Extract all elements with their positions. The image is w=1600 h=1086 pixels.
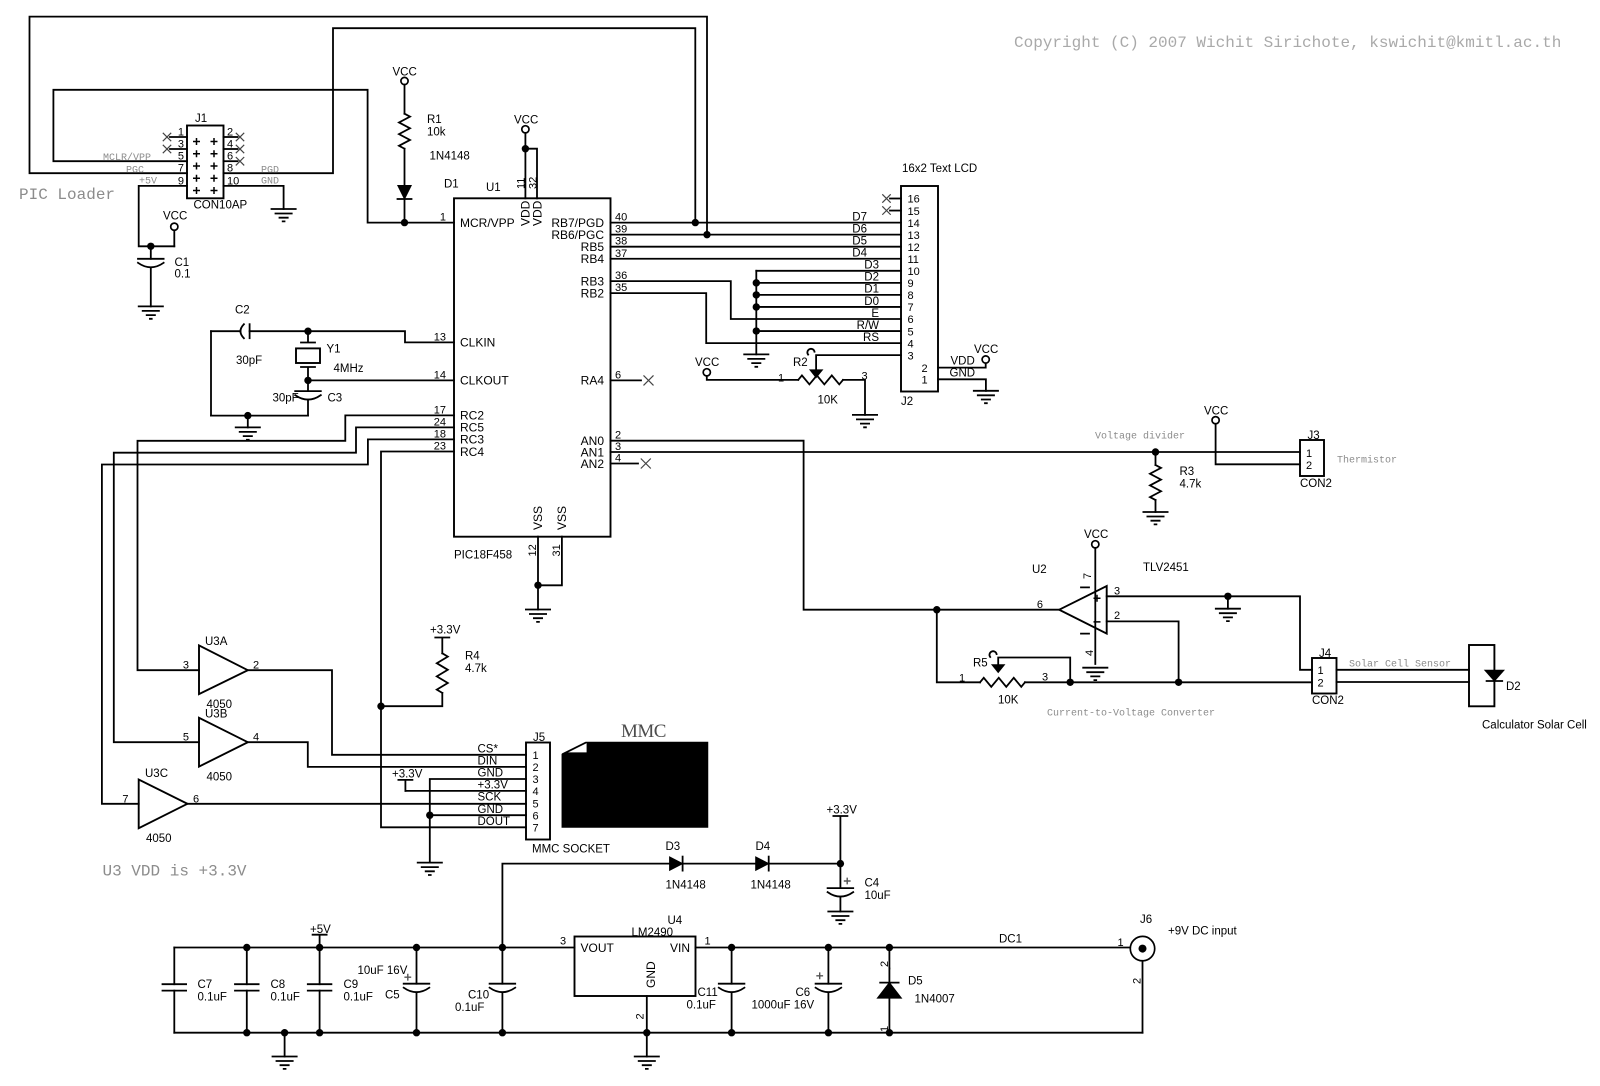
svg-text:J3: J3 xyxy=(1308,430,1320,442)
svg-text:1: 1 xyxy=(178,127,184,139)
svg-text:VSS: VSS xyxy=(555,506,569,530)
svg-text:7: 7 xyxy=(122,793,128,805)
svg-text:D7: D7 xyxy=(852,211,867,223)
svg-text:GND: GND xyxy=(478,768,504,780)
resistor R3 4.7k xyxy=(1155,452,1157,465)
node XTAL1 xyxy=(304,328,311,335)
ground C1 xyxy=(138,306,164,318)
svg-text:16x2 Text LCD: 16x2 Text LCD xyxy=(902,163,977,175)
svg-text:6: 6 xyxy=(1037,599,1043,611)
wire C2 left vertical xyxy=(210,331,212,415)
node MCLR xyxy=(401,219,408,226)
svg-text:D0: D0 xyxy=(864,296,879,308)
svg-text:4: 4 xyxy=(533,786,539,798)
power +5V xyxy=(313,935,327,948)
wire J4 pin1 to solar cell xyxy=(1337,669,1470,671)
svg-text:+3.3V: +3.3V xyxy=(827,805,858,817)
svg-text:3: 3 xyxy=(1042,672,1048,684)
svg-text:U3 VDD is +3.3V: U3 VDD is +3.3V xyxy=(103,863,247,881)
svg-text:10k: 10k xyxy=(427,127,446,139)
svg-text:2: 2 xyxy=(1114,610,1120,622)
svg-text:J4: J4 xyxy=(1319,648,1332,660)
node DOUT pull-up xyxy=(377,703,384,710)
mmc card icon xyxy=(562,743,707,828)
ground U1 VSS xyxy=(525,610,551,622)
connector J4 CON2 xyxy=(1312,648,1344,707)
wire CLKOUT xyxy=(308,379,454,381)
svg-text:R1: R1 xyxy=(427,114,442,126)
svg-text:5: 5 xyxy=(183,732,189,744)
wire LCD D2 xyxy=(756,282,901,284)
svg-text:DC1: DC1 xyxy=(999,934,1022,946)
svg-text:1: 1 xyxy=(778,372,784,384)
wire +5V rail to D3 xyxy=(502,864,669,948)
wire VSS pins to ground xyxy=(538,537,562,586)
svg-text:4: 4 xyxy=(908,338,914,350)
svg-text:2: 2 xyxy=(533,762,539,774)
svg-text:D3: D3 xyxy=(666,841,681,853)
svg-text:Y1: Y1 xyxy=(327,344,341,356)
svg-text:U1: U1 xyxy=(486,182,501,194)
wire crystal ground rail xyxy=(211,415,308,417)
svg-text:1: 1 xyxy=(959,673,965,685)
capacitor C6 1000uF 16V xyxy=(827,948,829,984)
wire D4 to +3.3V node xyxy=(769,863,841,865)
diode D1 1N4148 xyxy=(398,186,411,200)
svg-text:13: 13 xyxy=(908,230,920,242)
svg-text:14: 14 xyxy=(908,218,920,230)
power VCC at R1 xyxy=(401,77,408,84)
power VCC at LCD xyxy=(982,356,989,363)
node +input ground tap xyxy=(1224,593,1231,600)
svg-text:Voltage divider: Voltage divider xyxy=(1095,431,1185,443)
wire LCD D1 xyxy=(756,294,901,296)
ground bottom rail xyxy=(281,1029,288,1036)
no-connect J1 pins 2,4,6 xyxy=(236,133,244,141)
wire LCD gnd vertical xyxy=(755,271,757,355)
wire RC4 to J5 DOUT xyxy=(381,452,526,828)
node divider xyxy=(1152,448,1159,455)
ground LCD xyxy=(973,391,999,403)
ground crystal xyxy=(235,427,261,439)
wire D3 to D4 xyxy=(683,863,756,865)
ic U1 PIC18F458 xyxy=(434,177,628,562)
ground J5 xyxy=(417,863,443,875)
svg-text:4.7k: 4.7k xyxy=(465,663,487,675)
svg-text:9: 9 xyxy=(908,278,914,290)
svg-text:LM2490: LM2490 xyxy=(632,927,674,939)
svg-text:3: 3 xyxy=(862,370,868,382)
svg-text:C2: C2 xyxy=(235,305,250,317)
svg-text:D6: D6 xyxy=(852,223,867,235)
svg-text:2: 2 xyxy=(1318,677,1324,689)
node VCC C1 xyxy=(147,243,154,250)
wire RC5 to U3B input xyxy=(114,427,454,742)
svg-text:10uF 16V: 10uF 16V xyxy=(358,965,408,977)
svg-text:R4: R4 xyxy=(465,651,480,663)
ground J1 pin10 xyxy=(271,209,297,221)
svg-text:U3A: U3A xyxy=(205,636,228,648)
svg-text:4MHz: 4MHz xyxy=(334,363,364,375)
svg-text:30pF: 30pF xyxy=(273,393,299,405)
no-connect J1 pins 1,3 xyxy=(163,133,171,141)
label D7-D0 E R/W RS xyxy=(852,211,879,344)
svg-text:10K: 10K xyxy=(998,695,1019,707)
resistor R1 10k xyxy=(399,114,410,149)
svg-text:+3.3V: +3.3V xyxy=(392,769,423,781)
svg-text:TLV2451: TLV2451 xyxy=(1143,562,1189,574)
svg-text:2: 2 xyxy=(227,127,233,139)
svg-text:1: 1 xyxy=(1118,937,1124,949)
svg-text:5: 5 xyxy=(908,326,914,338)
svg-text:VCC: VCC xyxy=(1084,529,1108,541)
svg-text:R2: R2 xyxy=(793,357,808,369)
svg-text:10K: 10K xyxy=(818,394,839,406)
wire J1 pin10 to ground xyxy=(224,186,284,209)
svg-text:5: 5 xyxy=(533,798,539,810)
svg-text:Calculator Solar Cell: Calculator Solar Cell xyxy=(1482,720,1587,732)
wire J5 pin6 GND xyxy=(430,814,526,816)
svg-text:15: 15 xyxy=(908,206,920,218)
svg-text:6: 6 xyxy=(533,810,539,822)
wire MCLR/VPP loop from J1 pin5 to U1 pin1 xyxy=(53,90,454,223)
wire J4 pin2 to solar cell xyxy=(1337,681,1470,683)
svg-text:1: 1 xyxy=(705,936,711,948)
svg-text:D1: D1 xyxy=(444,179,459,191)
wire PGD loop from J1 pin8 to RB7/PGD xyxy=(224,28,696,222)
svg-text:1N4148: 1N4148 xyxy=(666,880,706,892)
svg-text:4.7k: 4.7k xyxy=(1180,479,1202,491)
wire J2 pin2 VDD to VCC xyxy=(938,363,986,368)
svg-text:CON2: CON2 xyxy=(1312,695,1344,707)
wire +3.3V to J5 pin4 xyxy=(405,790,526,792)
svg-text:VOUT: VOUT xyxy=(581,941,615,955)
ground U2 pin4 xyxy=(1082,668,1108,680)
wire C7 left leg xyxy=(173,948,175,1033)
svg-text:MCR/VPP: MCR/VPP xyxy=(460,216,515,230)
svg-text:CON2: CON2 xyxy=(1300,478,1332,490)
svg-text:C10: C10 xyxy=(468,990,489,1002)
svg-text:VCC: VCC xyxy=(1204,406,1228,418)
svg-text:8: 8 xyxy=(908,290,914,302)
svg-text:D1: D1 xyxy=(864,284,879,296)
svg-text:VCC: VCC xyxy=(163,211,187,223)
svg-text:VCC: VCC xyxy=(393,67,417,79)
svg-text:CS*: CS* xyxy=(478,743,499,755)
svg-text:1: 1 xyxy=(1306,448,1312,460)
svg-text:6: 6 xyxy=(908,314,914,326)
svg-text:2: 2 xyxy=(1306,460,1312,472)
wire RB7 to LCD D7 xyxy=(611,222,902,224)
svg-text:VDD: VDD xyxy=(951,356,975,368)
svg-text:4050: 4050 xyxy=(207,771,233,783)
ground U2 +input xyxy=(1215,609,1241,621)
svg-text:7: 7 xyxy=(178,163,184,175)
svg-text:0.1uF: 0.1uF xyxy=(198,992,227,1004)
no-connect RA4 xyxy=(611,379,642,381)
svg-text:0.1uF: 0.1uF xyxy=(271,992,300,1004)
svg-text:DOUT: DOUT xyxy=(478,816,511,828)
connector J3 CON2 xyxy=(1300,430,1332,490)
capacitor C11 0.1uF xyxy=(731,948,733,984)
svg-text:3: 3 xyxy=(908,350,914,362)
diode D2 solar cell xyxy=(1485,670,1504,681)
svg-text:VDD: VDD xyxy=(531,200,545,226)
wire LCD D0 xyxy=(756,306,901,308)
svg-text:D3: D3 xyxy=(864,260,879,272)
svg-text:MMC SOCKET: MMC SOCKET xyxy=(532,844,610,856)
svg-text:C11: C11 xyxy=(698,987,718,999)
svg-text:C6: C6 xyxy=(796,987,811,999)
wire J1 pin9 +5V to C1 node xyxy=(139,186,187,246)
node U2 output feedback xyxy=(933,606,940,613)
wire VDD pin32 xyxy=(525,149,537,199)
wire RC2 to U3A input xyxy=(138,415,455,670)
svg-text:4050: 4050 xyxy=(146,833,172,845)
svg-text:2: 2 xyxy=(635,1013,647,1019)
wire RB3 to LCD E xyxy=(611,281,902,319)
power VCC at J3 xyxy=(1212,417,1219,424)
no-connect AN2 xyxy=(611,463,639,465)
svg-text:GND: GND xyxy=(478,804,504,816)
wire RC3 to U3C input xyxy=(102,439,454,803)
op-amp U2 TLV2451 xyxy=(1032,548,1189,664)
svg-text:C3: C3 xyxy=(328,393,343,405)
svg-text:Thermistor: Thermistor xyxy=(1337,455,1397,467)
svg-text:Solar Cell Sensor: Solar Cell Sensor xyxy=(1349,659,1451,671)
svg-text:2: 2 xyxy=(879,961,891,967)
connector J2 16x2 Text LCD xyxy=(890,163,977,408)
wire U3A output to J5 CS* xyxy=(248,670,526,755)
svg-text:Current-to-Voltage Converter: Current-to-Voltage Converter xyxy=(1047,708,1215,720)
svg-text:+9V DC input: +9V DC input xyxy=(1168,926,1238,938)
svg-text:RB4: RB4 xyxy=(581,252,605,266)
svg-text:RS: RS xyxy=(863,332,879,344)
svg-text:0.1uF: 0.1uF xyxy=(687,1000,716,1012)
wire D1 to MCLR node xyxy=(404,199,406,223)
svg-text:E: E xyxy=(871,308,879,320)
capacitor C9 0.1uF xyxy=(319,948,321,1033)
svg-text:VCC: VCC xyxy=(514,115,538,127)
svg-text:10uF: 10uF xyxy=(865,890,891,902)
wire ground bottom rail xyxy=(174,1032,1142,1034)
svg-text:0.1uF: 0.1uF xyxy=(455,1002,484,1014)
capacitor C5 10uF 16V xyxy=(416,948,418,984)
svg-text:+3.3V: +3.3V xyxy=(430,625,461,637)
svg-text:1000uF 16V: 1000uF 16V xyxy=(752,1000,815,1012)
svg-text:J2: J2 xyxy=(901,396,913,408)
node PGC at RB6 xyxy=(703,231,710,238)
svg-text:D4: D4 xyxy=(756,841,771,853)
node VSS xyxy=(534,582,541,589)
connector J5 MMC SOCKET xyxy=(526,732,610,856)
svg-text:0.1uF: 0.1uF xyxy=(344,992,373,1004)
svg-text:8: 8 xyxy=(227,163,233,175)
wire J5 pin3 GND xyxy=(430,779,526,863)
svg-text:J1: J1 xyxy=(195,113,207,125)
wire +5V top rail xyxy=(174,947,574,949)
power VCC at U2 xyxy=(1092,541,1099,548)
ground U4 xyxy=(634,1057,660,1069)
svg-text:VCC: VCC xyxy=(695,357,719,369)
capacitor C4 10uF xyxy=(839,864,841,889)
wire RB5 to LCD D5 xyxy=(611,246,902,248)
svg-text:4: 4 xyxy=(1084,650,1096,656)
svg-text:C4: C4 xyxy=(865,878,880,890)
capacitor C8 0.1uF xyxy=(246,948,248,1033)
node J5 gnd xyxy=(426,812,433,819)
wire J2 pin1 GND to ground xyxy=(938,379,986,391)
svg-text:D2: D2 xyxy=(1506,681,1521,693)
svg-text:VCC: VCC xyxy=(974,344,998,356)
wire AN1 to thermistor J3 xyxy=(611,451,1301,453)
wire J6 pin2 return xyxy=(1142,961,1144,1033)
capacitor C7 0.1uF xyxy=(163,984,187,990)
ground R2 xyxy=(852,415,878,427)
wire RB4 to LCD D4 xyxy=(611,258,902,260)
wire U2 +input to J4 pin1 xyxy=(1107,596,1312,670)
resistor R4 4.7k xyxy=(437,653,448,693)
svg-text:6: 6 xyxy=(227,151,233,163)
svg-text:DIN: DIN xyxy=(478,755,498,767)
svg-text:RC4: RC4 xyxy=(460,445,484,459)
connector J6 DC jack xyxy=(1118,914,1155,984)
regulator U4 LM2490 xyxy=(560,915,711,996)
wire LCD D3 to gnd rail xyxy=(756,270,901,272)
svg-text:1N4148: 1N4148 xyxy=(751,880,791,892)
node +3.3V xyxy=(837,860,844,867)
svg-text:GND: GND xyxy=(950,368,976,380)
svg-text:CLKIN: CLKIN xyxy=(460,336,495,350)
ground C4 xyxy=(827,912,853,924)
power VCC at R2 xyxy=(703,369,710,376)
svg-text:C7: C7 xyxy=(198,979,213,991)
node R5 wiper tie xyxy=(1067,679,1074,686)
svg-text:3: 3 xyxy=(178,139,184,151)
ground LCD data lines xyxy=(743,354,769,366)
svg-text:16: 16 xyxy=(908,194,920,206)
svg-text:RA4: RA4 xyxy=(581,374,605,388)
svg-text:AN2: AN2 xyxy=(581,457,605,471)
power +3.3V at R4 xyxy=(435,638,449,654)
wire VCC to J3 pin2 xyxy=(1216,424,1300,465)
svg-text:U2: U2 xyxy=(1032,564,1047,576)
svg-text:12: 12 xyxy=(908,242,920,254)
svg-text:VSS: VSS xyxy=(531,506,545,530)
svg-text:0.1: 0.1 xyxy=(175,269,191,281)
wire U3B output to J5 DIN xyxy=(248,742,526,767)
svg-text:Copyright (C) 2007 Wichit Siri: Copyright (C) 2007 Wichit Sirichote, ksw… xyxy=(1014,34,1561,52)
svg-text:C1: C1 xyxy=(175,257,190,269)
svg-text:J5: J5 xyxy=(533,732,545,744)
svg-text:3: 3 xyxy=(560,936,566,948)
svg-text:D2: D2 xyxy=(864,272,879,284)
svg-text:PIC Loader: PIC Loader xyxy=(19,186,115,204)
wire RB2 to LCD RS xyxy=(611,293,902,343)
solar cell outline xyxy=(1469,645,1494,706)
no-connect LCD pins 16,15 xyxy=(882,194,890,202)
svg-text:C9: C9 xyxy=(344,979,359,991)
svg-text:SCK: SCK xyxy=(478,792,502,804)
svg-text:CON10AP: CON10AP xyxy=(194,200,248,212)
svg-text:D5: D5 xyxy=(852,236,867,248)
wire RB6 to LCD D6 xyxy=(611,234,902,236)
power VCC at C1 xyxy=(171,223,178,230)
wire LCD R/W xyxy=(756,330,901,332)
svg-text:1N4007: 1N4007 xyxy=(915,994,955,1006)
svg-text:R/W: R/W xyxy=(857,320,880,332)
svg-text:1: 1 xyxy=(1318,665,1324,677)
svg-text:U3B: U3B xyxy=(205,708,228,720)
node XTAL2 xyxy=(304,377,311,384)
svg-text:U3C: U3C xyxy=(145,768,168,780)
svg-text:D5: D5 xyxy=(908,976,923,988)
node -input tie xyxy=(1175,679,1182,686)
wire U4 GND pin2 xyxy=(646,996,648,1033)
svg-text:7: 7 xyxy=(533,822,539,834)
wire U3C output to J5 SCK xyxy=(187,803,526,805)
svg-text:+3.3V: +3.3V xyxy=(478,780,509,792)
buffer U3B 4050 xyxy=(183,708,259,783)
wire VIN rail xyxy=(696,947,1143,949)
node crystal gnd xyxy=(244,412,251,419)
diode D3 1N4148 xyxy=(670,857,683,870)
capacitor C10 0.1uF xyxy=(501,948,503,984)
capacitor C3 30pF xyxy=(307,380,309,391)
svg-text:11: 11 xyxy=(908,254,919,266)
svg-text:5: 5 xyxy=(178,151,184,163)
svg-text:PGD: PGD xyxy=(261,165,279,176)
svg-text:7: 7 xyxy=(908,302,914,314)
svg-text:U4: U4 xyxy=(668,915,683,927)
svg-text:MMC: MMC xyxy=(621,721,666,742)
power +3.3V at C4 xyxy=(833,816,847,864)
svg-text:R5: R5 xyxy=(973,658,988,670)
wire feedback rail xyxy=(937,610,1312,683)
connector J1 CON10AP xyxy=(170,113,248,212)
svg-text:1N4148: 1N4148 xyxy=(430,151,470,163)
svg-text:C5: C5 xyxy=(385,990,400,1002)
svg-text:1: 1 xyxy=(879,1026,891,1032)
wire CLKIN xyxy=(308,331,454,342)
svg-text:30pF: 30pF xyxy=(236,355,262,367)
capacitor C1 0.1 xyxy=(150,246,152,258)
potentiometer R5 10K xyxy=(980,678,1025,687)
svg-text:GND: GND xyxy=(644,961,658,988)
svg-text:7: 7 xyxy=(1082,573,1094,579)
wire R1 to D1 xyxy=(404,149,406,186)
buffer U3C 4050 xyxy=(122,768,199,845)
crystal Y1 4MHz xyxy=(296,331,364,380)
node VDD xyxy=(522,145,529,152)
potentiometer R2 10K xyxy=(798,375,843,384)
svg-text:3: 3 xyxy=(183,660,189,672)
ground R3 xyxy=(1143,512,1169,524)
svg-text:3: 3 xyxy=(533,774,539,786)
wire U2 -input to feedback rail xyxy=(1107,621,1179,682)
label J5 signal names xyxy=(478,743,511,827)
svg-text:RB2: RB2 xyxy=(581,286,605,300)
power VCC at U1 VDD xyxy=(522,126,529,133)
node PGD at RB7 xyxy=(692,219,699,226)
svg-text:10: 10 xyxy=(908,266,920,278)
power +3.3V at J5 pin4 xyxy=(398,780,412,791)
diode D4 1N4148 xyxy=(756,857,769,870)
svg-text:D4: D4 xyxy=(852,248,867,260)
wire AN0 to U2 output xyxy=(611,441,1060,610)
svg-text:1: 1 xyxy=(440,212,446,224)
svg-text:1: 1 xyxy=(922,375,928,387)
